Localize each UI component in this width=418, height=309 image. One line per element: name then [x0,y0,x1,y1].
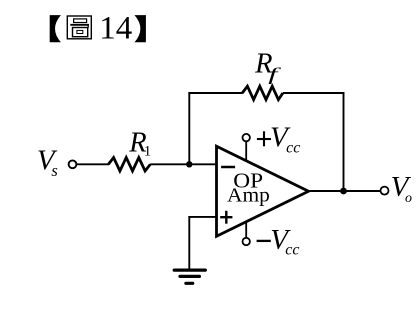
svg-text:Vo: Vo [391,171,412,206]
terminal circle -Vcc [243,238,250,245]
svg-text:14: 14 [99,10,132,46]
plus sign of +Vcc [257,131,271,146]
wire junction up to feedback [188,92,190,164]
wire ground vertical [188,216,190,270]
svg-text:f: f [268,64,282,84]
op-amp plus input sign [220,211,232,224]
op-amp minus input sign [221,166,235,169]
title right bracket [135,15,146,42]
resistor R1 [108,158,150,172]
output terminal circle [381,187,389,195]
ground symbol [174,270,205,283]
wire stub -Vcc to triangle [245,221,247,238]
svg-text:Vs: Vs [37,145,58,181]
wire right vertical down to output node [343,92,345,191]
wire feedback right segment [283,92,345,94]
resistor Rf [242,86,283,100]
svg-text:Amp: Amp [227,184,270,206]
node junction dot at output [340,188,347,195]
input terminal circle [69,160,77,168]
op-amp U1 triangle [217,146,309,236]
title character tu (figure) [67,16,91,39]
wire R1 to op-amp inverting input [150,163,217,165]
wire non-inverting input to ground branch [188,216,217,218]
minus sign of -Vcc [257,240,271,242]
svg-text:R1: R1 [128,127,151,159]
node junction dot at inverting input [186,161,192,167]
wire op-amp output [309,190,381,192]
wire feedback left segment [188,92,242,94]
terminal circle +Vcc [243,134,250,141]
svg-text:Vcc: Vcc [270,224,299,258]
title left bracket [50,15,61,42]
wire input to R1 [76,163,109,165]
svg-text:Vcc: Vcc [270,121,300,156]
wire stub +Vcc to triangle [245,141,247,161]
